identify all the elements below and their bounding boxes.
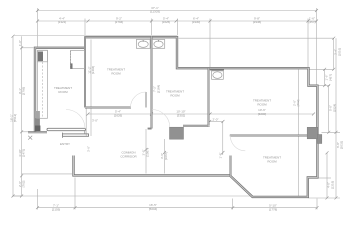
wire: left dimension line overall 18'-1" x=11.2 <box>13 36 22 196</box>
svg-text:1'-8": 1'-8" <box>218 153 222 159</box>
svg-text:ROOM: ROOM <box>257 103 267 107</box>
wall: divider between treatment room 1 and 2 <box>84 36 86 107</box>
svg-text:ROOM: ROOM <box>111 72 121 76</box>
svg-text:[457]: [457] <box>328 74 332 81</box>
svg-text:[11303]: [11303] <box>150 10 160 14</box>
node: tick marks top dim lines <box>36 9 318 23</box>
wall: treatment room 3 bottom wall <box>183 125 210 127</box>
wall: shaft block between corridor and room 3 <box>170 127 184 139</box>
svg-text:[1626]: [1626] <box>114 113 123 117</box>
svg-text:[3200]: [3200] <box>258 112 267 116</box>
fixture: sink 1 in treatment room 2 <box>136 40 150 49</box>
svg-text:ROOM: ROOM <box>267 160 277 164</box>
wall: corridor top wall right segment <box>230 135 307 137</box>
node: common corridor label <box>120 151 137 159</box>
svg-text:[2794]: [2794] <box>115 20 124 24</box>
svg-text:CORRIDOR: CORRIDOR <box>120 155 137 159</box>
svg-text:[2159]: [2159] <box>52 207 61 211</box>
svg-text:[762]: [762] <box>22 181 26 188</box>
door: treatment room 3 door swing <box>152 110 170 128</box>
wire: right side dimension lines <box>179 38 341 198</box>
door: corridor door swing into right room <box>230 136 245 151</box>
node: room label treatment room 2 <box>107 68 125 76</box>
wire: top dimension line overall 37'-1" <box>38 8 317 86</box>
wire: bottom dimension line y=207.7 <box>38 153 318 210</box>
svg-text:[1067]: [1067] <box>145 148 149 157</box>
svg-text:[3302]: [3302] <box>177 113 186 117</box>
wire: top dimension line segments y=21 <box>38 19 317 68</box>
wall: pilaster block at right corridor end <box>307 127 318 139</box>
door: entry door swing arc <box>66 110 85 129</box>
svg-text:[2769]: [2769] <box>22 87 26 96</box>
wire: thin roofline above top-left wall <box>13 34 178 36</box>
fixture: sink 2 in treatment room 3 <box>152 40 164 49</box>
node: left overall dim text <box>9 114 17 123</box>
svg-text:2'-0": 2'-0" <box>213 117 219 121</box>
node: corridor dim texts <box>87 100 300 161</box>
svg-text:3'-6": 3'-6" <box>87 146 91 152</box>
svg-text:ROOM: ROOM <box>58 90 68 94</box>
door: entry door leaf <box>47 128 86 130</box>
node: right side dim texts <box>325 48 344 190</box>
svg-text:[1778]: [1778] <box>269 207 278 211</box>
svg-text:[457]: [457] <box>309 20 316 24</box>
svg-text:[2184]: [2184] <box>156 85 160 94</box>
wall: exterior outline of clinic <box>35 37 317 197</box>
svg-text:[2946]: [2946] <box>253 20 262 24</box>
wire: bottom dimension line y=196 <box>13 178 252 210</box>
door: entry second leaf (corridor side) <box>63 134 89 136</box>
node: right dim ticks <box>323 37 337 200</box>
wall: door frame nub at divider 2-3 bottom <box>148 128 152 130</box>
svg-text:[5512]: [5512] <box>13 114 17 123</box>
node: room label treatment room 5 bottom right <box>263 156 281 164</box>
svg-text:[3404]: [3404] <box>91 66 95 75</box>
svg-text:[1473]: [1473] <box>22 149 26 158</box>
wire: corridor dim extension lines <box>86 40 298 174</box>
wall: divider between treatment room 2 and 3 <box>151 36 153 128</box>
svg-text:[762]: [762] <box>296 100 300 107</box>
node: bottom dim texts <box>52 203 278 211</box>
node: room label treatment room 1 <box>54 86 72 94</box>
wall: entry exterior wall stub <box>28 131 47 133</box>
node: room interior dim texts <box>87 66 160 94</box>
fixture: counter in treatment room 1 <box>38 50 48 118</box>
svg-text:[1930]: [1930] <box>192 20 201 24</box>
node: interior dim ticks y=114 <box>87 113 316 155</box>
fixture: equipment box in treatment room 1 <box>70 51 84 69</box>
wall: treatment room 2 bottom wall <box>85 107 131 109</box>
svg-text:3'-0": 3'-0" <box>92 119 98 123</box>
svg-text:[1219]: [1219] <box>330 181 334 190</box>
svg-text:ENTRY: ENTRY <box>60 142 70 146</box>
svg-text:[1016]: [1016] <box>337 48 341 57</box>
node: left segment dim texts <box>18 40 26 187</box>
node: room label treatment room 3 <box>166 90 184 98</box>
fixture: sink 3 in treatment room 4 <box>210 70 224 80</box>
node: tick marks left dim lines <box>12 35 24 198</box>
svg-text:[1524]: [1524] <box>332 104 336 113</box>
door: treatment room 2 door leaf and swing <box>145 92 147 108</box>
node: small cross mark at entry left <box>28 136 32 140</box>
wire: interior dimension line y=114 <box>88 114 314 155</box>
svg-text:[1067]: [1067] <box>164 152 168 161</box>
svg-text:[2032]: [2032] <box>340 141 344 150</box>
node: top segment dimension texts <box>58 17 316 25</box>
svg-text:ROOM: ROOM <box>170 94 180 98</box>
node: room label treatment room 4 <box>253 99 271 107</box>
svg-text:[1321]: [1321] <box>58 20 67 24</box>
node: tick marks bottom dims <box>36 206 319 209</box>
wall: interior partitions <box>28 36 307 176</box>
wall: entry pilaster blocks <box>35 111 40 118</box>
svg-text:[5004]: [5004] <box>149 207 158 211</box>
node: interior dim texts row y=114 <box>114 108 267 121</box>
wall: divider between treatment room 3 and 4 <box>208 68 210 127</box>
svg-text:1'-0": 1'-0" <box>18 40 22 46</box>
wall: right room left wall segment <box>230 156 232 176</box>
svg-text:[1626]: [1626] <box>162 20 171 24</box>
wire: left dimension line segments x=21.6 <box>22 36 72 196</box>
